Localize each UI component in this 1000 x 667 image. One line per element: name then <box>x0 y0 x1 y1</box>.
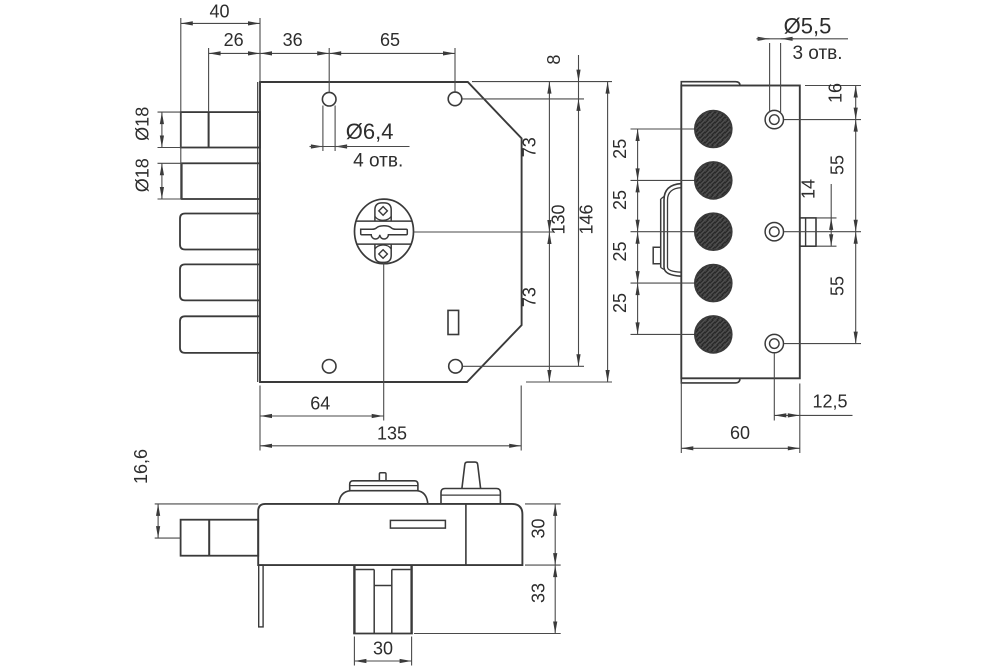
dim 60 ext line left <box>680 382 682 454</box>
knob1 dome base <box>339 491 428 504</box>
dim 8 tail <box>578 55 580 82</box>
hole top-right <box>448 92 462 106</box>
dim 135 line <box>260 445 521 447</box>
boss small tab <box>653 247 661 264</box>
right tab inner line <box>805 218 807 246</box>
dim 30 bottom ext lines <box>353 637 355 666</box>
dim 55 top line <box>855 120 857 232</box>
body inner vertical line <box>465 504 467 565</box>
bolt end circle 3 <box>695 213 732 250</box>
svg-text:65: 65 <box>380 30 400 50</box>
guide channel bridge <box>374 585 392 587</box>
svg-text:55: 55 <box>828 155 848 175</box>
cylinder boss face line <box>660 199 662 268</box>
dim 73 bottom line <box>548 232 550 382</box>
screw hole top inner <box>770 115 780 125</box>
guide block left side <box>353 565 355 633</box>
svg-text:Ø18: Ø18 <box>133 107 153 141</box>
bolt B5 <box>180 316 260 353</box>
right ext hole bottom <box>463 365 584 367</box>
dim 12.5 line <box>774 414 800 416</box>
dia18 b1 ext lines <box>158 111 182 113</box>
right ext top edge <box>472 81 612 83</box>
dim 130 line <box>578 99 580 366</box>
svg-text:25: 25 <box>610 190 630 210</box>
guide block right side <box>410 565 412 633</box>
right tab <box>800 218 816 246</box>
bottom view body <box>258 504 522 565</box>
right ext hole top <box>463 98 585 100</box>
dim 135 ext lines <box>259 386 261 451</box>
svg-text:30: 30 <box>373 639 393 659</box>
svg-text:26: 26 <box>224 30 244 50</box>
bolt circle stub lines <box>631 129 732 334</box>
keyhole bottom diamond <box>379 250 388 259</box>
keyhole lower chord <box>356 243 412 245</box>
svg-text:Ø6,4: Ø6,4 <box>346 119 394 144</box>
dia5.5 arrows <box>757 38 770 40</box>
dim 16 line <box>855 86 857 120</box>
keyhole upper chord <box>356 220 412 222</box>
hole bottom-right <box>449 360 463 374</box>
bolt end circle 5 <box>695 316 732 353</box>
guide block top faces <box>356 569 375 571</box>
guide channel walls <box>373 570 375 634</box>
side view body <box>681 86 800 379</box>
keyhole top tab <box>375 203 391 221</box>
svg-text:64: 64 <box>310 394 330 414</box>
dim 26 extension line <box>208 48 210 112</box>
bolt B1 (top latch) <box>181 112 260 147</box>
dim 12.5 ext lines <box>773 353 775 421</box>
faceplate strip below <box>259 565 263 627</box>
svg-text:73: 73 <box>520 137 540 157</box>
dim 73 top line <box>548 82 550 232</box>
svg-text:25: 25 <box>610 293 630 313</box>
svg-text:Ø18: Ø18 <box>133 158 153 192</box>
svg-text:146: 146 <box>577 204 597 234</box>
screw hole mid outer <box>765 223 783 241</box>
svg-text:25: 25 <box>610 139 630 159</box>
svg-text:14: 14 <box>799 179 819 199</box>
dim 36 extension line <box>328 48 330 92</box>
keyhole cylinder circle <box>355 199 414 264</box>
svg-text:12,5: 12,5 <box>812 392 847 412</box>
dim 25 chain line <box>637 129 639 180</box>
dia18 b2 ext lines <box>158 162 183 164</box>
dia5.5 shelf <box>757 38 849 40</box>
svg-text:130: 130 <box>549 204 569 234</box>
svg-text:Ø5,5: Ø5,5 <box>784 13 832 38</box>
svg-text:8: 8 <box>544 55 564 65</box>
dim 55 bottom line <box>855 232 857 344</box>
svg-text:16: 16 <box>826 83 846 103</box>
svg-text:55: 55 <box>828 276 848 296</box>
bolt B3 <box>180 214 260 250</box>
svg-text:4 отв.: 4 отв. <box>353 151 403 172</box>
dim 30 right ext lines <box>525 503 561 505</box>
cylinder boss outer profile <box>664 184 681 277</box>
dia5.5 ext lines <box>769 43 771 112</box>
dim 146 line <box>607 82 609 382</box>
dim 16.6 top ext <box>155 503 259 505</box>
svg-text:16,6: 16,6 <box>131 449 151 484</box>
bolt end circle 1 <box>695 111 732 148</box>
dim 33 line <box>554 565 556 633</box>
svg-text:30: 30 <box>529 518 549 538</box>
dia6.4 shelf <box>310 146 410 148</box>
bolt B2 <box>182 163 260 199</box>
dia18 b2 dim line <box>161 163 163 199</box>
side view top lip <box>681 82 740 86</box>
key slot <box>361 226 408 239</box>
screw hole bottom outer <box>765 334 783 352</box>
hole top-left <box>322 92 336 106</box>
screw hole bottom inner <box>770 339 780 349</box>
right ext center long <box>784 231 861 233</box>
svg-text:40: 40 <box>209 2 229 22</box>
cylinder boss inner line <box>668 188 682 273</box>
dim 65 line <box>329 52 455 54</box>
svg-text:33: 33 <box>529 583 549 603</box>
keyhole bottom tab wave <box>375 245 391 249</box>
dia6.4 extension lines <box>322 106 324 152</box>
bottom bolt <box>181 520 259 556</box>
right ext hole1 center <box>784 119 861 121</box>
guide block bottom <box>353 633 413 635</box>
svg-text:73: 73 <box>520 287 540 307</box>
dim 40 line <box>181 22 260 24</box>
dim 60 line <box>681 447 800 449</box>
dim 26 line <box>209 52 260 54</box>
dia18 b1 dim line <box>161 112 163 147</box>
right ext bottom edge <box>526 381 612 383</box>
knob2 base line <box>441 494 500 496</box>
screw hole mid inner <box>770 227 780 237</box>
dim 64 line <box>260 415 384 417</box>
bolt B1 step line <box>208 112 210 147</box>
dim 33 ext line <box>414 633 561 635</box>
knob1 cap <box>350 481 418 491</box>
dim 40 extension lines <box>180 18 182 199</box>
dim 30 bottom line <box>354 660 411 662</box>
side view bottom lip <box>681 378 740 383</box>
dia6.4 arrows <box>310 146 323 148</box>
body slot <box>390 520 445 528</box>
keyhole centerline down <box>383 263 385 421</box>
dim 12.5 tail <box>800 414 853 416</box>
knob2 cone <box>462 462 481 488</box>
bolt B4 <box>180 264 260 300</box>
right ext top edge <box>805 85 861 87</box>
svg-text:36: 36 <box>283 30 303 50</box>
screw hole top outer <box>765 110 783 128</box>
keyhole top tab wave <box>375 216 391 220</box>
bolt end circle 4 <box>695 265 732 302</box>
faceplate edge line <box>257 82 259 382</box>
hole bottom-left <box>322 360 336 374</box>
knob1 stem <box>379 473 386 481</box>
svg-text:3 отв.: 3 отв. <box>792 43 842 64</box>
dim 16.6 line <box>157 504 159 538</box>
dim 16.6 bottom ext <box>155 537 181 539</box>
bottom bolt step <box>208 520 210 556</box>
bolt end circle 2 <box>695 162 732 199</box>
keyhole top diamond <box>379 207 388 216</box>
lock body front view outline <box>260 82 522 382</box>
svg-text:25: 25 <box>610 241 630 261</box>
dim 14 line <box>830 218 832 246</box>
knob1 cap line <box>350 485 418 487</box>
svg-text:60: 60 <box>730 423 750 443</box>
dim 65 extension line <box>454 48 456 92</box>
dim 14 ext lines <box>816 217 837 219</box>
dim 30 right line <box>554 504 556 565</box>
right ext hole3 center <box>784 343 861 345</box>
keyhole bottom tab <box>375 244 391 262</box>
small slot lower right <box>448 310 459 334</box>
dim 36 line <box>260 52 329 54</box>
svg-text:135: 135 <box>377 423 407 443</box>
knob2 base <box>441 489 500 504</box>
right ext keyhole center <box>414 231 555 233</box>
dim 14 tail <box>830 184 832 218</box>
